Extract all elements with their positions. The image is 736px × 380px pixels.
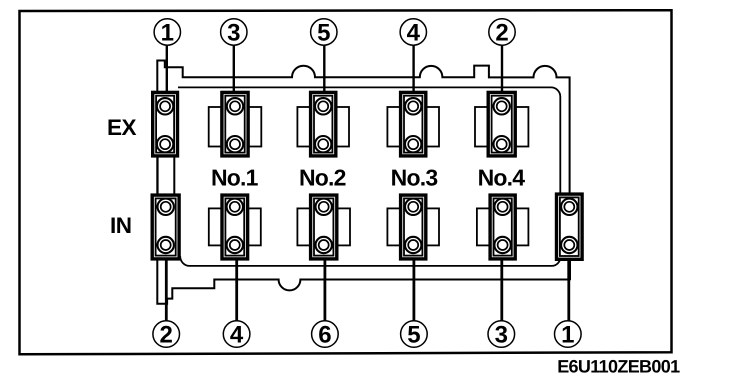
leader line to bottom callout 5 <box>412 259 415 321</box>
callout circle 2 (top, No.4) <box>489 19 515 47</box>
svg-text:2: 2 <box>160 322 173 349</box>
svg-text:1: 1 <box>561 322 574 349</box>
leader line to top callout 2 <box>501 45 503 93</box>
callout circle 1 (bottom, right cap) <box>555 321 582 349</box>
svg-text:4: 4 <box>230 322 244 349</box>
callout circle 5 (bottom, No.3) <box>401 321 428 349</box>
leader line to bottom callout 4 <box>235 259 238 321</box>
callout circle 2 (bottom, IN cap) <box>153 321 180 349</box>
svg-text:2: 2 <box>495 20 508 47</box>
cap No.4 top (bolt 2) <box>475 92 528 155</box>
cap IN-left (bolt 2) <box>152 195 179 259</box>
svg-text:6: 6 <box>318 322 331 349</box>
thick leader stub below right cap <box>567 255 571 280</box>
cap No.3 top (bolt 4) <box>387 92 439 155</box>
svg-text:No.1: No.1 <box>211 165 259 191</box>
leader line to bottom callout 2 <box>165 259 168 321</box>
svg-text:IN: IN <box>110 213 132 238</box>
cap No.2 bottom (bolt 6) <box>297 195 350 259</box>
svg-text:EX: EX <box>107 115 137 140</box>
cap No.1 top (bolt 3) <box>209 92 262 155</box>
svg-text:3: 3 <box>227 20 240 47</box>
leader line to bottom callout 1 <box>567 259 570 321</box>
svg-text:3: 3 <box>495 322 508 349</box>
left cam tower column lines between EX and IN caps <box>157 152 159 198</box>
leader line to top callout 1 <box>166 45 168 93</box>
svg-text:No.4: No.4 <box>478 165 526 191</box>
callout circle 3 (bottom, No.4) <box>488 321 515 349</box>
cap No.1 bottom (bolt 4) <box>209 195 261 259</box>
svg-text:1: 1 <box>161 20 174 47</box>
callout circle 4 (bottom, No.1) <box>223 321 250 349</box>
svg-text:No.2: No.2 <box>299 165 346 191</box>
callout circle 4 (top, No.3) <box>400 19 426 47</box>
callout circle 1 (top, EX cap) <box>154 19 180 47</box>
leader line to bottom callout 6 <box>323 259 326 321</box>
svg-text:5: 5 <box>317 20 330 47</box>
leader line to top callout 4 <box>412 45 414 93</box>
leader line to top callout 3 <box>233 45 235 93</box>
callout circle 5 (top, No.2) <box>311 19 337 47</box>
svg-text:5: 5 <box>407 322 420 349</box>
svg-text:No.3: No.3 <box>391 165 438 191</box>
svg-text:E6U110ZEB001: E6U110ZEB001 <box>557 357 680 377</box>
cap No.3 bottom (bolt 5) <box>387 195 439 259</box>
svg-text:4: 4 <box>407 20 421 47</box>
cylinder head outer contour <box>157 61 569 304</box>
cap No.4 bottom (bolt 3) <box>477 195 528 259</box>
cap No.2 top (bolt 5) <box>297 92 349 155</box>
cylinder head inner contour <box>178 87 560 266</box>
cap right-end (bolt 1) <box>557 194 583 259</box>
callout circle 3 (top, No.1) <box>221 19 247 47</box>
leader line to top callout 5 <box>323 45 325 93</box>
cap EX-left (bolt 1) <box>153 92 178 155</box>
leader line to bottom callout 3 <box>500 259 503 321</box>
callout circle 6 (bottom, No.2) <box>312 321 339 349</box>
